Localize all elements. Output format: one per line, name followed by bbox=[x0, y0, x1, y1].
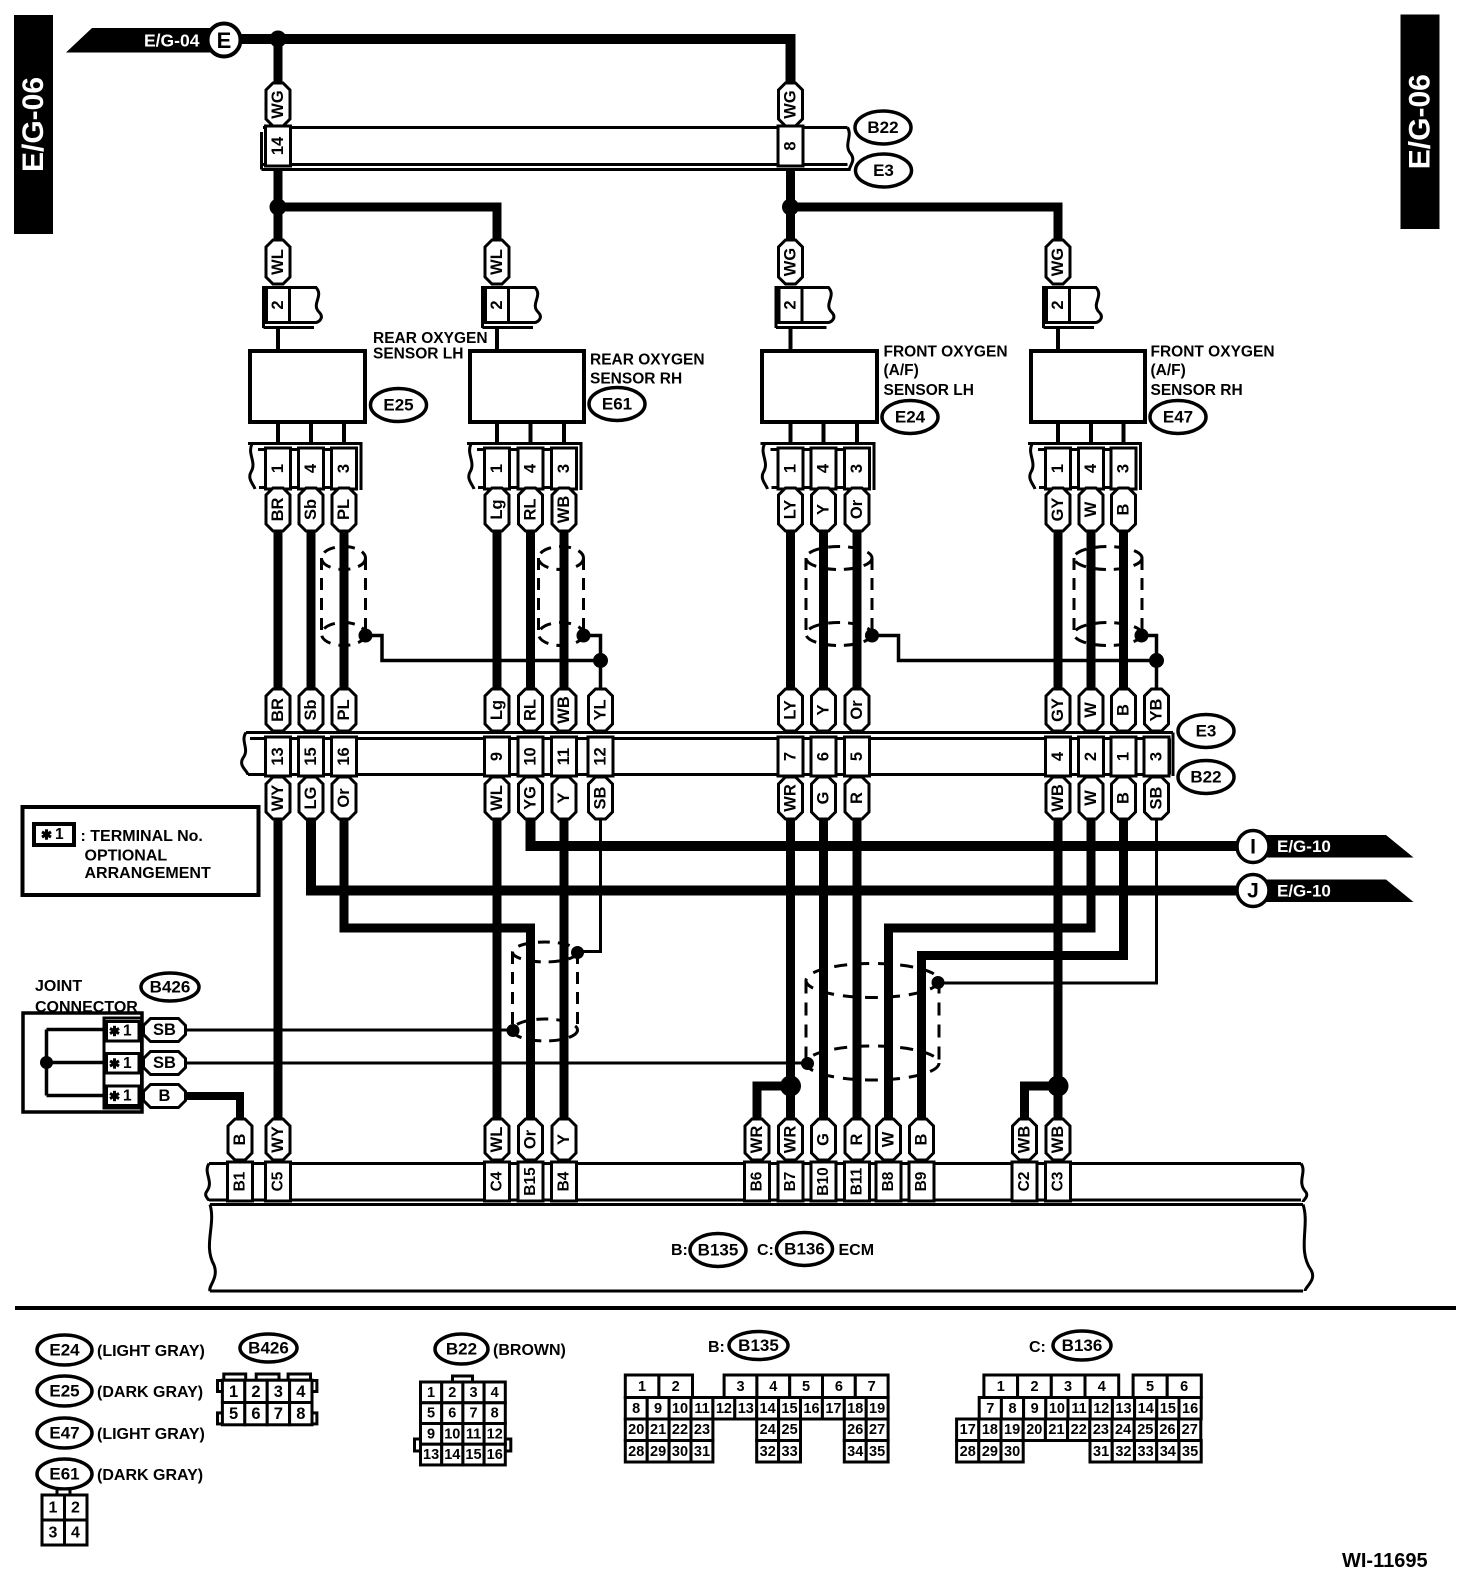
svg-text:14: 14 bbox=[444, 1447, 460, 1463]
svg-text:20: 20 bbox=[1026, 1422, 1042, 1438]
wire label SB below connector E3/B22 bbox=[1145, 777, 1169, 819]
svg-text:(DARK GRAY): (DARK GRAY) bbox=[97, 1384, 203, 1401]
legend box *1 TERMINAL No. OPTIONAL ARRANGEMENT bbox=[23, 807, 259, 895]
legend connector ref E24 bbox=[37, 1335, 92, 1365]
wire Sb from sensor to connector E3/B22 bbox=[307, 531, 316, 689]
ECM body bbox=[209, 1205, 1312, 1292]
svg-text:12: 12 bbox=[592, 747, 610, 765]
shield around WR/G/R/W/B wires above ECM bbox=[806, 964, 939, 1081]
wire label RL below sensor pin bbox=[519, 488, 543, 531]
svg-text:(BROWN): (BROWN) bbox=[493, 1342, 566, 1359]
svg-text:Or: Or bbox=[848, 700, 866, 720]
svg-text:1: 1 bbox=[1049, 464, 1067, 473]
wire label R at ECM bbox=[845, 1119, 869, 1160]
connector ref E47 bbox=[1150, 401, 1206, 434]
wire B from sensor to connector E3/B22 bbox=[1119, 531, 1128, 689]
shield drain dot E61 bbox=[577, 629, 591, 643]
front oxygen sensor RH box E47 bbox=[1031, 351, 1145, 422]
svg-text:4: 4 bbox=[491, 1385, 499, 1401]
shield dot to joint connector SB (left) bbox=[507, 1024, 520, 1037]
svg-text:B: B bbox=[913, 1133, 931, 1145]
svg-text:Y: Y bbox=[555, 792, 573, 803]
connector pin 2 stub at sensor E61 bbox=[483, 286, 541, 352]
svg-text:2: 2 bbox=[1082, 752, 1100, 761]
svg-text:WB: WB bbox=[555, 496, 573, 524]
ECM pin B6 bbox=[745, 1162, 770, 1201]
wire Lg from sensor to connector E3/B22 bbox=[493, 531, 502, 689]
connector pin grid B22 bbox=[415, 1376, 511, 1465]
shield around WB wire of E61 bbox=[539, 547, 584, 646]
branch bus right to front sensor RH drop bbox=[791, 207, 1059, 240]
ECM pin B10 bbox=[811, 1162, 836, 1201]
svg-text:1: 1 bbox=[123, 1088, 132, 1105]
svg-text:7: 7 bbox=[469, 1406, 477, 1422]
svg-text:24: 24 bbox=[760, 1422, 776, 1438]
svg-text:8: 8 bbox=[296, 1405, 305, 1423]
pin 1 cell of sensor E24 connector row bbox=[778, 448, 803, 489]
svg-text:19: 19 bbox=[1004, 1422, 1020, 1438]
svg-text:6: 6 bbox=[251, 1405, 260, 1423]
svg-text:2: 2 bbox=[488, 300, 506, 309]
svg-text:12: 12 bbox=[1093, 1401, 1109, 1417]
pin 4 cell of sensor E24 connector row bbox=[811, 448, 836, 489]
wire WY to ECM C5 bbox=[274, 819, 283, 1121]
legend connector ref B136 bbox=[1053, 1331, 1111, 1360]
svg-text:RL: RL bbox=[522, 699, 540, 721]
wire G to ECM B10 bbox=[819, 819, 828, 1121]
svg-text:LY: LY bbox=[782, 700, 800, 720]
wire B from joint connector to ECM B1 bbox=[186, 1096, 241, 1121]
junction dot YB drain bbox=[1149, 653, 1164, 668]
svg-text:E24: E24 bbox=[895, 408, 926, 427]
joint connector internal bus bbox=[47, 1030, 104, 1096]
pin 4 cell of sensor E25 connector row bbox=[299, 448, 324, 489]
svg-text:WL: WL bbox=[488, 785, 506, 811]
svg-text:15: 15 bbox=[781, 1401, 797, 1417]
pin 7 of mid connector E3/B22 bbox=[778, 737, 803, 776]
svg-text:E: E bbox=[217, 28, 232, 53]
shield drain dot E47 bbox=[1135, 629, 1149, 643]
svg-text:SB: SB bbox=[153, 1021, 176, 1039]
svg-text:10: 10 bbox=[522, 747, 540, 765]
junction dot right branch bbox=[782, 199, 799, 216]
svg-text:1: 1 bbox=[123, 1055, 132, 1072]
svg-text:1: 1 bbox=[269, 464, 287, 473]
svg-text:10: 10 bbox=[1049, 1401, 1065, 1417]
wire label G at ECM bbox=[812, 1119, 836, 1160]
svg-text:35: 35 bbox=[869, 1444, 885, 1460]
svg-text:2: 2 bbox=[1049, 300, 1067, 309]
svg-text:5: 5 bbox=[427, 1406, 435, 1422]
svg-text:6: 6 bbox=[1180, 1379, 1188, 1395]
wire from pin 8 down to branch junction bbox=[786, 171, 795, 240]
wire WR to ECM B7 bbox=[786, 819, 795, 1121]
svg-text:6: 6 bbox=[815, 752, 833, 761]
svg-text:WB: WB bbox=[1016, 1126, 1034, 1154]
svg-text:14: 14 bbox=[760, 1401, 776, 1417]
stub wire E25 pin3 bbox=[342, 422, 346, 444]
svg-text:W: W bbox=[880, 1131, 898, 1147]
shield dot to joint connector SB (right) bbox=[801, 1057, 814, 1070]
connector ref B426 bbox=[141, 973, 199, 1001]
ECM pin B15 bbox=[518, 1162, 543, 1201]
junction dot WR wires bbox=[780, 1076, 801, 1097]
svg-text:(DARK GRAY): (DARK GRAY) bbox=[97, 1467, 203, 1484]
svg-text:E25: E25 bbox=[383, 396, 413, 415]
pin 8 of connector E3/B22 bbox=[778, 126, 803, 166]
stub wire E24 pin1 bbox=[789, 422, 793, 444]
page label banner E/G-06 left bbox=[14, 15, 53, 234]
wire WB from sensor to connector E3/B22 bbox=[560, 531, 569, 689]
shield around Y/Or wires of E24 bbox=[806, 547, 872, 646]
wire R to ECM B11 bbox=[853, 819, 862, 1121]
junction dot joint connector bus bbox=[40, 1056, 53, 1069]
svg-text:8: 8 bbox=[491, 1406, 499, 1422]
svg-text:7: 7 bbox=[868, 1379, 876, 1395]
wire Y from sensor to connector E3/B22 bbox=[819, 531, 828, 689]
svg-text:32: 32 bbox=[760, 1444, 776, 1460]
svg-text:B135: B135 bbox=[738, 1336, 779, 1355]
pin 3 cell of sensor E25 connector row bbox=[332, 448, 357, 489]
svg-text:PL: PL bbox=[335, 499, 353, 520]
stub wire E47 pin4 bbox=[1089, 422, 1093, 444]
svg-text:2: 2 bbox=[672, 1379, 680, 1395]
svg-text:6: 6 bbox=[448, 1406, 456, 1422]
wire W from sensor to connector E3/B22 bbox=[1087, 531, 1096, 689]
branch bus left to rear sensor RH drop bbox=[278, 207, 497, 240]
connector ref B136 bbox=[777, 1233, 833, 1266]
svg-text:18: 18 bbox=[982, 1422, 998, 1438]
svg-text:(LIGHT GRAY): (LIGHT GRAY) bbox=[97, 1426, 205, 1443]
wire label B joint row 3 bbox=[144, 1085, 186, 1108]
node I circle bbox=[1237, 831, 1269, 863]
stub wire E24 pin4 bbox=[822, 422, 826, 444]
svg-text:3: 3 bbox=[335, 464, 353, 473]
wire label GY below sensor pin bbox=[1046, 488, 1070, 531]
pin 1 cell of sensor E61 connector row bbox=[485, 448, 510, 489]
pin 1 of mid connector E3/B22 bbox=[1111, 737, 1136, 776]
svg-text:7: 7 bbox=[274, 1405, 283, 1423]
svg-text:10: 10 bbox=[444, 1426, 460, 1442]
svg-text:YG: YG bbox=[522, 786, 540, 810]
svg-text:Or: Or bbox=[522, 1129, 540, 1149]
shield drain wire from E25 shield to YL junction bbox=[366, 636, 601, 661]
stub wire E47 pin1 bbox=[1056, 422, 1060, 444]
svg-text:SB: SB bbox=[592, 786, 610, 809]
svg-text:E/G-10: E/G-10 bbox=[1277, 882, 1331, 901]
svg-text:E/G-06: E/G-06 bbox=[1404, 74, 1437, 169]
svg-text:2: 2 bbox=[251, 1383, 260, 1401]
page label banner E/G-06 right bbox=[1401, 15, 1440, 230]
wire label WL at E61 pin 2 bbox=[485, 240, 509, 284]
rear oxygen sensor LH box E25 bbox=[250, 351, 365, 422]
svg-text:29: 29 bbox=[982, 1444, 998, 1460]
svg-text:WB: WB bbox=[555, 696, 573, 724]
node J circle bbox=[1237, 875, 1269, 907]
wire WB elbow to ECM C2 bbox=[1025, 1086, 1059, 1121]
svg-text:13: 13 bbox=[269, 747, 287, 765]
wire label WL at ECM bbox=[485, 1119, 509, 1160]
svg-text:B136: B136 bbox=[784, 1240, 825, 1259]
pin 10 of mid connector E3/B22 bbox=[518, 737, 543, 776]
wire label B below connector E3/B22 bbox=[1112, 777, 1136, 819]
svg-text:4: 4 bbox=[769, 1379, 777, 1395]
svg-text:33: 33 bbox=[1138, 1444, 1154, 1460]
junction dot WB wires bbox=[1048, 1076, 1069, 1097]
wire label G below connector E3/B22 bbox=[812, 777, 836, 819]
connector pin grid B135 bbox=[625, 1375, 888, 1462]
svg-text:20: 20 bbox=[628, 1422, 644, 1438]
wire label Y below sensor pin bbox=[812, 488, 836, 531]
svg-text:1: 1 bbox=[1115, 752, 1133, 761]
svg-text:21: 21 bbox=[650, 1422, 666, 1438]
wire label BR above connector E3/B22 bbox=[266, 689, 290, 731]
svg-text:31: 31 bbox=[1093, 1444, 1109, 1460]
svg-text:E61: E61 bbox=[602, 395, 632, 414]
svg-text:16: 16 bbox=[1182, 1401, 1198, 1417]
svg-text:E/G-10: E/G-10 bbox=[1277, 837, 1331, 856]
svg-text:B22: B22 bbox=[446, 1340, 477, 1359]
svg-text:C5: C5 bbox=[270, 1171, 287, 1191]
connector pin 2 stub at sensor E24 bbox=[776, 286, 834, 352]
wire label YL above connector E3/B22 bbox=[589, 689, 613, 731]
wire label WG (pin 8) bbox=[779, 83, 803, 126]
wire SB joint row 1 to Or-wire shield bbox=[186, 1029, 514, 1032]
svg-text:J: J bbox=[1247, 880, 1259, 903]
svg-text:13: 13 bbox=[738, 1401, 754, 1417]
svg-text:8: 8 bbox=[632, 1401, 640, 1417]
svg-text:B: B bbox=[1115, 503, 1133, 515]
svg-text:WY: WY bbox=[269, 785, 287, 812]
legend connector ref B22 bbox=[435, 1334, 488, 1364]
wire label RL above connector E3/B22 bbox=[519, 689, 543, 731]
svg-text:15: 15 bbox=[1160, 1401, 1176, 1417]
stub wire E25 pin1 bbox=[276, 422, 280, 444]
svg-text:Y: Y bbox=[555, 1134, 573, 1145]
wire label WY below connector E3/B22 bbox=[266, 777, 290, 819]
stub wire E47 pin3 bbox=[1122, 422, 1126, 444]
node E circle bbox=[208, 24, 241, 57]
arrow banner E/G-10 at node J bbox=[1265, 880, 1414, 903]
svg-text:WG: WG bbox=[269, 90, 287, 118]
pin 16 of mid connector E3/B22 bbox=[332, 737, 357, 776]
pin 2 of mid connector E3/B22 bbox=[1079, 737, 1104, 776]
pin 11 of mid connector E3/B22 bbox=[552, 737, 577, 776]
svg-text:3: 3 bbox=[49, 1525, 58, 1542]
wire label B at ECM bbox=[228, 1119, 252, 1160]
wire WB to ECM C3 bbox=[1054, 819, 1063, 1121]
svg-text:B1: B1 bbox=[232, 1171, 249, 1191]
wire label PL above connector E3/B22 bbox=[332, 689, 356, 731]
wire label Lg below sensor pin bbox=[485, 488, 509, 531]
svg-text:7: 7 bbox=[782, 752, 800, 761]
svg-text:G: G bbox=[815, 792, 833, 805]
svg-text:4: 4 bbox=[296, 1383, 306, 1401]
ECM pin B9 bbox=[909, 1162, 934, 1201]
svg-text:C2: C2 bbox=[1016, 1172, 1033, 1192]
svg-text:B9: B9 bbox=[913, 1171, 930, 1191]
svg-text:34: 34 bbox=[847, 1444, 863, 1460]
svg-text:WG: WG bbox=[782, 248, 800, 276]
pin 15 of mid connector E3/B22 bbox=[299, 737, 324, 776]
wire label Sb above connector E3/B22 bbox=[299, 689, 323, 731]
arrow banner E/G-10 at node I bbox=[1265, 835, 1414, 858]
svg-text:YL: YL bbox=[592, 699, 610, 720]
rear oxygen sensor RH box E61 bbox=[470, 351, 584, 422]
svg-text:BR: BR bbox=[269, 498, 287, 522]
svg-text:WG: WG bbox=[782, 90, 800, 118]
svg-text:17: 17 bbox=[825, 1401, 841, 1417]
svg-text:1: 1 bbox=[488, 464, 506, 473]
svg-text:GY: GY bbox=[1049, 498, 1067, 522]
svg-text:3: 3 bbox=[736, 1379, 744, 1395]
svg-text:B10: B10 bbox=[815, 1167, 832, 1195]
svg-text:B:: B: bbox=[708, 1339, 725, 1356]
connector ref E25 bbox=[371, 389, 427, 422]
connector ref E3 (mid band) bbox=[1178, 715, 1234, 748]
svg-text:(LIGHT GRAY): (LIGHT GRAY) bbox=[97, 1343, 205, 1360]
svg-text:C:: C: bbox=[1029, 1339, 1046, 1356]
svg-text:19: 19 bbox=[869, 1401, 885, 1417]
svg-text:2: 2 bbox=[269, 300, 287, 309]
sensor E47 connector row bbox=[1028, 444, 1142, 491]
stub wire E24 pin3 bbox=[855, 422, 859, 444]
svg-text:E3: E3 bbox=[1196, 722, 1217, 741]
wire label LG below connector E3/B22 bbox=[299, 777, 323, 819]
wire label Or below connector E3/B22 bbox=[332, 777, 356, 819]
wire label WG (pin 14) bbox=[266, 83, 290, 126]
svg-text:WB: WB bbox=[1049, 1126, 1067, 1154]
svg-text:9: 9 bbox=[488, 752, 506, 761]
junction dot left branch bbox=[270, 199, 287, 216]
pin 4 cell of sensor E61 connector row bbox=[518, 448, 543, 489]
wire label R below connector E3/B22 bbox=[845, 777, 869, 819]
svg-text:B426: B426 bbox=[248, 1339, 289, 1358]
svg-text:1: 1 bbox=[229, 1383, 238, 1401]
svg-text:6: 6 bbox=[835, 1379, 843, 1395]
svg-text:33: 33 bbox=[782, 1444, 798, 1460]
stub wire E61 pin3 bbox=[562, 422, 566, 444]
svg-text:25: 25 bbox=[782, 1422, 798, 1438]
svg-text:4: 4 bbox=[522, 463, 540, 473]
connector band E3/B22 middle bbox=[242, 733, 1173, 777]
svg-text:9: 9 bbox=[427, 1426, 435, 1442]
bus to node I from YG wire bbox=[531, 819, 1238, 846]
pin 12 of mid connector E3/B22 bbox=[588, 737, 613, 776]
svg-text:3: 3 bbox=[1064, 1379, 1072, 1395]
wire label WB below connector E3/B22 bbox=[1046, 777, 1070, 819]
ECM pin C4 bbox=[485, 1162, 510, 1201]
svg-text:32: 32 bbox=[1115, 1444, 1131, 1460]
joint pin *1 row 1 bbox=[110, 1023, 132, 1040]
junction dot on bus at WG left drop bbox=[270, 31, 287, 48]
svg-text:16: 16 bbox=[335, 747, 353, 765]
svg-text:E61: E61 bbox=[49, 1465, 79, 1484]
svg-text:3: 3 bbox=[1148, 752, 1166, 761]
pin 13 of mid connector E3/B22 bbox=[266, 737, 291, 776]
svg-text:B22: B22 bbox=[867, 118, 898, 137]
svg-text:4: 4 bbox=[302, 463, 320, 473]
wire label Or at ECM bbox=[519, 1119, 543, 1160]
pin 3 cell of sensor E24 connector row bbox=[845, 448, 870, 489]
svg-text:RL: RL bbox=[522, 499, 540, 521]
svg-text:G: G bbox=[815, 1133, 833, 1146]
svg-text:E47: E47 bbox=[1163, 408, 1193, 427]
wire label WL at E25 pin 2 bbox=[266, 240, 290, 284]
svg-text:C:: C: bbox=[757, 1242, 774, 1259]
wire Or from sensor to connector E3/B22 bbox=[853, 531, 862, 689]
wire label Y at ECM bbox=[552, 1119, 576, 1160]
wire W to ECM B8 bbox=[889, 819, 1092, 1121]
separator line bbox=[15, 1306, 1456, 1310]
svg-text:22: 22 bbox=[1071, 1422, 1087, 1438]
svg-text:YB: YB bbox=[1148, 698, 1166, 721]
svg-text:B136: B136 bbox=[1062, 1336, 1103, 1355]
wire label Y below connector E3/B22 bbox=[552, 777, 576, 819]
svg-text:W: W bbox=[1082, 501, 1100, 517]
svg-text:2: 2 bbox=[448, 1385, 456, 1401]
sensor connector pin grid 2x2 bbox=[42, 1489, 87, 1545]
svg-text:4: 4 bbox=[1098, 1379, 1106, 1395]
svg-text:27: 27 bbox=[1182, 1422, 1198, 1438]
sensor E24 connector row bbox=[761, 444, 876, 491]
shield drain wire from E61 shield to YL junction bbox=[584, 636, 601, 690]
wire label WB above connector E3/B22 bbox=[552, 689, 576, 731]
svg-text:WR: WR bbox=[782, 784, 800, 812]
wire label WY at ECM bbox=[266, 1119, 290, 1160]
svg-text:Y: Y bbox=[815, 704, 833, 715]
wire label Or below sensor pin bbox=[845, 488, 869, 531]
pin 9 of mid connector E3/B22 bbox=[485, 737, 510, 776]
wire label B below sensor pin bbox=[1112, 488, 1136, 531]
front oxygen sensor LH box E24 bbox=[762, 351, 877, 422]
wire main bus from node E to WG drop right bbox=[240, 39, 791, 83]
wire WL to ECM C4 bbox=[493, 819, 502, 1121]
connector ref B22 (mid band) bbox=[1178, 761, 1234, 794]
wire WR elbow to ECM B6 bbox=[757, 1086, 791, 1121]
svg-text:Lg: Lg bbox=[488, 700, 506, 720]
svg-text:B4: B4 bbox=[556, 1171, 573, 1191]
pin 1 cell of sensor E47 connector row bbox=[1046, 448, 1071, 489]
svg-text:34: 34 bbox=[1160, 1444, 1176, 1460]
wire label WG at E47 pin 2 bbox=[1046, 240, 1070, 284]
svg-text:11: 11 bbox=[466, 1426, 481, 1442]
wire label WB at ECM bbox=[1046, 1119, 1070, 1160]
ECM pin B11 bbox=[845, 1162, 870, 1201]
wire SB thin from pin 12 to shield of Or wire bbox=[578, 819, 601, 952]
wire B to ECM B9 bbox=[922, 819, 1124, 1121]
svg-text:31: 31 bbox=[694, 1444, 710, 1460]
svg-text:11: 11 bbox=[555, 748, 573, 765]
sensor E25 connector row bbox=[248, 444, 363, 491]
svg-text:SB: SB bbox=[1148, 786, 1166, 809]
svg-text:3: 3 bbox=[469, 1385, 477, 1401]
svg-text:21: 21 bbox=[1048, 1422, 1064, 1438]
svg-text:1: 1 bbox=[638, 1379, 646, 1395]
svg-text:Or: Or bbox=[848, 499, 866, 519]
stub wire E25 pin4 bbox=[309, 422, 313, 444]
svg-text:W: W bbox=[1082, 702, 1100, 718]
pin 4 cell of sensor E47 connector row bbox=[1079, 448, 1104, 489]
shield around Or wire above ECM bbox=[513, 942, 578, 1041]
svg-text:3: 3 bbox=[848, 464, 866, 473]
svg-text:11: 11 bbox=[1071, 1401, 1086, 1417]
svg-text:WB: WB bbox=[1049, 784, 1067, 812]
svg-text:10: 10 bbox=[672, 1401, 688, 1417]
svg-text:1: 1 bbox=[49, 1500, 58, 1517]
svg-text:Sb: Sb bbox=[302, 699, 320, 720]
connector pin 2 stub at sensor E47 bbox=[1044, 286, 1102, 352]
